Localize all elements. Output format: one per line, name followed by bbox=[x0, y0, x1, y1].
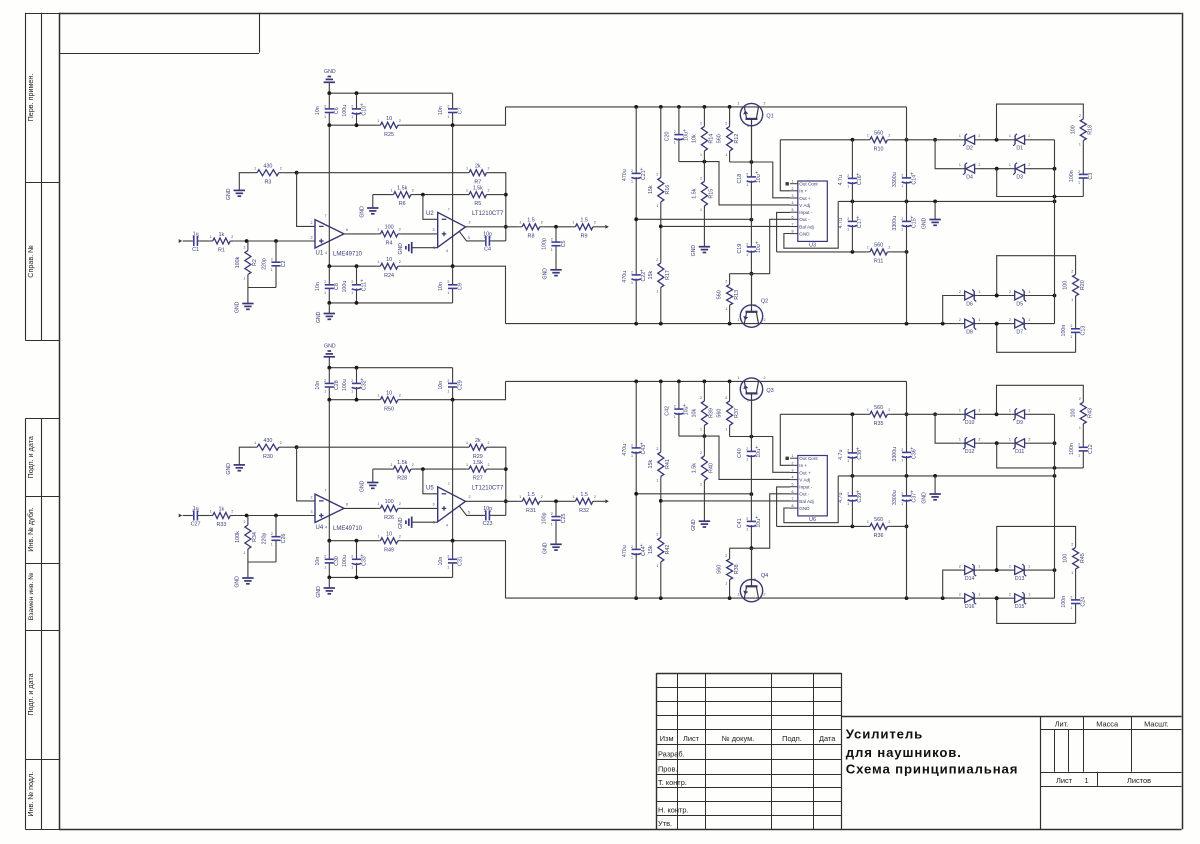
junction U2 minus node bbox=[421, 193, 425, 197]
capacitor C6 bbox=[315, 93, 340, 125]
diode D1 bbox=[1009, 134, 1031, 152]
svg-text:R4: R4 bbox=[386, 241, 393, 247]
svg-text:15k: 15k bbox=[648, 185, 654, 194]
svg-text:1: 1 bbox=[674, 141, 676, 145]
wire D7 right corner bbox=[1027, 323, 1054, 325]
svg-text:R17: R17 bbox=[665, 270, 671, 280]
svg-text:R30: R30 bbox=[263, 454, 273, 460]
wire D1 right corner bbox=[1027, 413, 1054, 415]
svg-text:220p: 220p bbox=[262, 533, 268, 545]
svg-text:Подп. и дата: Подп. и дата bbox=[26, 673, 35, 715]
junction R5 fb bbox=[504, 467, 508, 471]
svg-text:2: 2 bbox=[244, 246, 246, 250]
resistor R43 bbox=[1070, 397, 1093, 430]
svg-text:Q1: Q1 bbox=[766, 114, 773, 120]
wire Out- pin bbox=[751, 219, 790, 273]
resistor R42 bbox=[648, 501, 671, 598]
svg-text:1: 1 bbox=[466, 441, 468, 445]
wire GND pin loop bbox=[784, 201, 838, 248]
svg-text:R8: R8 bbox=[528, 233, 535, 239]
svg-text:2: 2 bbox=[764, 593, 766, 597]
wire +reg vertical bbox=[906, 107, 908, 140]
junction -rail taps bbox=[634, 596, 638, 600]
svg-text:2: 2 bbox=[1078, 443, 1080, 447]
svg-text:1: 1 bbox=[738, 101, 740, 105]
wire lower-cell bottom edge bbox=[997, 598, 1076, 623]
junction -V line bbox=[327, 264, 331, 268]
svg-text:3: 3 bbox=[754, 578, 756, 582]
svg-text:1: 1 bbox=[792, 180, 794, 184]
svg-text:4: 4 bbox=[446, 249, 448, 253]
junction C5 node bbox=[554, 499, 558, 503]
svg-text:10: 10 bbox=[386, 391, 392, 397]
svg-text:GND: GND bbox=[235, 301, 241, 313]
wire D3 right bbox=[1027, 168, 1054, 170]
svg-text:R34: R34 bbox=[252, 532, 258, 542]
svg-text:2: 2 bbox=[399, 394, 401, 398]
svg-text:1: 1 bbox=[210, 509, 212, 513]
wire D3 right bbox=[1027, 442, 1054, 444]
svg-text:2: 2 bbox=[1028, 409, 1030, 413]
resistor R16 bbox=[648, 107, 671, 226]
svg-text:Лист: Лист bbox=[1056, 776, 1073, 785]
svg-text:1: 1 bbox=[725, 427, 727, 431]
svg-text:2: 2 bbox=[888, 134, 890, 138]
ground GND C25 bbox=[543, 523, 562, 554]
svg-text:1: 1 bbox=[1009, 409, 1011, 413]
junction R11 line bbox=[851, 525, 855, 529]
svg-text:GND: GND bbox=[324, 69, 336, 75]
svg-text:6: 6 bbox=[792, 490, 794, 494]
svg-text:C8: C8 bbox=[334, 283, 340, 290]
wire U1 out bbox=[344, 233, 377, 235]
capacitor C12 bbox=[1069, 427, 1094, 468]
svg-text:1: 1 bbox=[746, 253, 748, 257]
svg-text:Out +: Out + bbox=[799, 470, 811, 475]
svg-text:V Adj: V Adj bbox=[799, 203, 810, 208]
svg-text:2: 2 bbox=[725, 396, 727, 400]
wire U2 pin5 bbox=[460, 232, 484, 241]
svg-text:470u: 470u bbox=[622, 444, 628, 456]
diode D5 bbox=[1009, 290, 1031, 308]
svg-text:1.5k: 1.5k bbox=[691, 188, 697, 198]
svg-text:C36: C36 bbox=[911, 449, 917, 459]
svg-text:3300u: 3300u bbox=[892, 172, 898, 187]
junction -V line bbox=[327, 539, 331, 543]
svg-text:U3: U3 bbox=[809, 243, 816, 249]
svg-text:470u: 470u bbox=[622, 271, 628, 283]
svg-text:C13: C13 bbox=[1080, 326, 1086, 336]
svg-text:D9: D9 bbox=[1016, 420, 1023, 426]
svg-text:1: 1 bbox=[1028, 593, 1030, 597]
svg-text:Взамен инв. №: Взамен инв. № bbox=[28, 572, 35, 620]
svg-text:3300u: 3300u bbox=[892, 216, 898, 231]
svg-text:U4: U4 bbox=[316, 525, 324, 531]
junction gnd bus bbox=[851, 474, 855, 478]
wire R7 to fb vertical bbox=[490, 447, 506, 515]
svg-text:C31: C31 bbox=[457, 556, 463, 566]
capacitor C4 bbox=[483, 231, 492, 252]
svg-text:2: 2 bbox=[656, 447, 658, 451]
svg-text:R12: R12 bbox=[734, 134, 740, 144]
svg-text:1: 1 bbox=[901, 502, 903, 506]
svg-text:4: 4 bbox=[325, 526, 327, 530]
capacitor C7 bbox=[438, 93, 463, 125]
resistor R6 bbox=[390, 185, 414, 207]
svg-text:2: 2 bbox=[1028, 134, 1030, 138]
wire R11 right bbox=[891, 251, 907, 253]
svg-text:2: 2 bbox=[978, 163, 980, 167]
svg-text:C42: C42 bbox=[665, 406, 671, 416]
svg-text:560: 560 bbox=[717, 565, 723, 574]
wire R11 line bbox=[777, 525, 867, 527]
wire R6-R5 node bbox=[414, 468, 465, 470]
svg-text:2: 2 bbox=[541, 221, 543, 225]
svg-text:2: 2 bbox=[656, 532, 658, 536]
svg-text:1: 1 bbox=[466, 463, 468, 467]
wire D4-D3 bbox=[977, 442, 1012, 444]
svg-text:1: 1 bbox=[377, 394, 379, 398]
svg-text:2: 2 bbox=[631, 443, 633, 447]
diode D15 bbox=[1009, 592, 1031, 610]
svg-text:1: 1 bbox=[631, 555, 633, 559]
capacitor C19 bbox=[737, 220, 762, 274]
svg-text:C18: C18 bbox=[737, 174, 743, 184]
svg-text:R15: R15 bbox=[709, 189, 715, 199]
svg-text:2: 2 bbox=[1028, 163, 1030, 167]
svg-text:1: 1 bbox=[197, 509, 199, 513]
svg-text:2: 2 bbox=[959, 290, 961, 294]
svg-text:220p: 220p bbox=[262, 258, 268, 270]
svg-text:1: 1 bbox=[867, 408, 869, 412]
svg-text:15k: 15k bbox=[648, 459, 654, 468]
svg-text:2: 2 bbox=[978, 134, 980, 138]
junction gnd bus bbox=[327, 366, 331, 370]
title block rows left bbox=[656, 687, 841, 689]
svg-text:1: 1 bbox=[674, 415, 676, 419]
svg-text:R16: R16 bbox=[665, 185, 671, 195]
wire lower-cell left link bbox=[943, 570, 962, 598]
svg-text:100n: 100n bbox=[1061, 325, 1067, 337]
resistor R12 bbox=[717, 107, 740, 162]
svg-text:10: 10 bbox=[386, 116, 392, 122]
ground GND R3 bbox=[226, 188, 245, 200]
resistor R26 bbox=[377, 499, 402, 521]
diode D12 bbox=[959, 437, 981, 455]
svg-text:1: 1 bbox=[324, 115, 326, 119]
svg-text:8: 8 bbox=[792, 230, 794, 234]
ground GND R6 bbox=[359, 195, 378, 218]
svg-text:2: 2 bbox=[1071, 543, 1073, 547]
svg-text:1k: 1k bbox=[219, 232, 225, 238]
resistor R14 bbox=[691, 107, 714, 162]
svg-text:100: 100 bbox=[385, 225, 394, 231]
junction -V gnd bus bbox=[327, 576, 331, 580]
resistor R30 bbox=[254, 438, 283, 460]
resistor R2 bbox=[235, 241, 258, 288]
wire R11 line bbox=[777, 251, 867, 253]
junction -rail taps bbox=[634, 322, 638, 326]
svg-text:1: 1 bbox=[901, 458, 903, 462]
svg-text:R39: R39 bbox=[709, 408, 715, 418]
svg-text:GND: GND bbox=[359, 480, 365, 492]
svg-text:2: 2 bbox=[351, 555, 353, 559]
svg-text:1: 1 bbox=[746, 183, 748, 187]
svg-text:для наушников.: для наушников. bbox=[846, 745, 962, 760]
wire upper-cell top edge bbox=[997, 385, 1084, 414]
svg-text:Н. контр.: Н. контр. bbox=[658, 805, 689, 814]
svg-text:1: 1 bbox=[978, 318, 980, 322]
diode D11 bbox=[1009, 437, 1031, 455]
svg-text:2: 2 bbox=[351, 280, 353, 284]
svg-text:GND: GND bbox=[226, 463, 232, 475]
svg-text:2: 2 bbox=[1009, 593, 1011, 597]
svg-text:1: 1 bbox=[1078, 453, 1080, 457]
wire -V line bbox=[329, 265, 377, 267]
junction rail taps bbox=[634, 380, 638, 384]
svg-text:1: 1 bbox=[700, 153, 702, 157]
svg-text:R43: R43 bbox=[1088, 408, 1094, 418]
wire upper-cell top edge bbox=[997, 104, 1084, 140]
svg-text:GND: GND bbox=[543, 542, 549, 554]
wire +V bus bbox=[329, 399, 377, 401]
svg-text:Input -: Input - bbox=[799, 210, 812, 215]
resistor R40 bbox=[691, 436, 714, 521]
svg-text:2: 2 bbox=[631, 169, 633, 173]
svg-text:100n: 100n bbox=[1069, 443, 1075, 455]
svg-text:GND: GND bbox=[359, 206, 365, 218]
svg-text:R29: R29 bbox=[473, 454, 483, 460]
junction VAdj bbox=[703, 160, 707, 164]
svg-text:2: 2 bbox=[447, 555, 449, 559]
wire D8-D7 bbox=[977, 323, 1012, 325]
svg-text:2: 2 bbox=[280, 167, 282, 171]
svg-text:1: 1 bbox=[725, 582, 727, 586]
svg-text:2: 2 bbox=[631, 270, 633, 274]
svg-text:R20: R20 bbox=[1080, 280, 1086, 290]
svg-text:560: 560 bbox=[717, 290, 723, 299]
svg-text:10n: 10n bbox=[438, 557, 444, 566]
svg-text:100: 100 bbox=[1070, 409, 1076, 418]
svg-text:10n: 10n bbox=[315, 557, 321, 566]
svg-text:C32: C32 bbox=[361, 380, 367, 390]
svg-text:R10: R10 bbox=[874, 146, 884, 152]
resistor R49 bbox=[377, 532, 402, 554]
svg-text:R7: R7 bbox=[474, 179, 481, 185]
svg-text:2: 2 bbox=[484, 235, 486, 239]
capacitor C31 bbox=[438, 541, 463, 578]
svg-text:1.5k: 1.5k bbox=[473, 460, 483, 466]
ground GND R30 bbox=[226, 463, 245, 475]
resistor R1 bbox=[209, 232, 234, 254]
wire R4 to U2 plus bbox=[401, 233, 437, 235]
svg-text:GND: GND bbox=[316, 311, 322, 323]
resistor R20 bbox=[1063, 270, 1086, 303]
svg-text:2: 2 bbox=[1009, 318, 1011, 322]
svg-text:100u: 100u bbox=[342, 281, 348, 293]
svg-text:1: 1 bbox=[746, 527, 748, 531]
capacitor C22 bbox=[622, 219, 647, 323]
wire R10 right bbox=[891, 413, 962, 415]
svg-text:100u: 100u bbox=[342, 555, 348, 567]
svg-text:1: 1 bbox=[377, 535, 379, 539]
wire R3 left corner bbox=[239, 173, 253, 191]
svg-text:1: 1 bbox=[1084, 776, 1088, 785]
svg-text:560: 560 bbox=[874, 131, 883, 137]
diode D16 bbox=[959, 592, 981, 610]
svg-text:1.5: 1.5 bbox=[527, 218, 535, 224]
junction lower-cell bbox=[995, 568, 999, 572]
svg-text:1: 1 bbox=[519, 221, 521, 225]
svg-text:1: 1 bbox=[244, 277, 246, 281]
svg-text:3: 3 bbox=[433, 228, 435, 232]
svg-text:Т. контр.: Т. контр. bbox=[658, 778, 687, 787]
wire Out+ line bbox=[730, 162, 790, 198]
op-amp U1 bbox=[315, 220, 344, 248]
wire node to U1 minus bbox=[297, 447, 315, 501]
wire -V line right bbox=[401, 541, 505, 598]
wire C4 to fb bbox=[491, 240, 505, 242]
diode D2 bbox=[959, 134, 981, 152]
svg-text:100u: 100u bbox=[342, 379, 348, 391]
svg-text:2: 2 bbox=[746, 517, 748, 521]
svg-text:C43: C43 bbox=[641, 445, 647, 455]
wire upper-cell bottom edge bbox=[997, 443, 1084, 468]
capacitor C13 bbox=[1061, 299, 1086, 352]
svg-text:1: 1 bbox=[377, 260, 379, 264]
wire R3 to node bbox=[282, 172, 296, 174]
svg-text:15k: 15k bbox=[648, 545, 654, 554]
svg-text:2: 2 bbox=[551, 512, 553, 516]
svg-text:1: 1 bbox=[867, 520, 869, 524]
svg-text:1: 1 bbox=[656, 478, 658, 482]
svg-text:D16: D16 bbox=[965, 604, 975, 610]
svg-text:LT1210CT7: LT1210CT7 bbox=[472, 211, 504, 217]
svg-text:2k: 2k bbox=[475, 438, 481, 444]
wire In+ pin bbox=[780, 140, 790, 191]
wire U2 supply rail bbox=[452, 400, 454, 541]
junction gnd bus bbox=[327, 91, 331, 95]
wire GND pin loop bbox=[784, 476, 838, 523]
svg-text:1: 1 bbox=[978, 593, 980, 597]
svg-text:D11: D11 bbox=[1015, 449, 1024, 455]
resistor R7 bbox=[466, 164, 491, 186]
wire upper-cell bottom edge bbox=[997, 169, 1084, 197]
wire mid line bbox=[636, 218, 751, 220]
junction D8-D7 bbox=[995, 596, 999, 600]
resistor R37 bbox=[717, 381, 740, 436]
resistor R32 bbox=[572, 492, 597, 514]
wire lower-cell top edge bbox=[997, 526, 1076, 570]
svg-text:R24: R24 bbox=[384, 273, 394, 279]
svg-text:C3: C3 bbox=[1088, 173, 1094, 180]
title block right section bbox=[1040, 716, 1042, 829]
wire U2 output bbox=[466, 226, 519, 228]
svg-text:10u: 10u bbox=[684, 132, 690, 141]
svg-text:2: 2 bbox=[901, 173, 903, 177]
svg-text:2: 2 bbox=[412, 188, 414, 192]
svg-text:Подп. и дата: Подп. и дата bbox=[26, 436, 35, 478]
svg-text:Утв.: Утв. bbox=[658, 819, 672, 828]
junction output fb bbox=[504, 499, 508, 503]
svg-text:2: 2 bbox=[901, 217, 903, 221]
capacitor C17 bbox=[838, 201, 863, 252]
svg-text:C12: C12 bbox=[1088, 444, 1094, 454]
junction D4-D3 bbox=[995, 441, 999, 445]
svg-text:U2: U2 bbox=[426, 211, 434, 217]
svg-text:C41: C41 bbox=[737, 518, 743, 528]
wire Out- pin bbox=[751, 494, 790, 548]
svg-text:2: 2 bbox=[399, 228, 401, 232]
svg-text:1: 1 bbox=[244, 551, 246, 555]
svg-text:2: 2 bbox=[656, 172, 658, 176]
svg-text:2: 2 bbox=[324, 280, 326, 284]
svg-text:2: 2 bbox=[192, 235, 194, 239]
svg-text:Out -: Out - bbox=[799, 217, 810, 222]
svg-text:C30: C30 bbox=[334, 556, 340, 566]
svg-text:5: 5 bbox=[792, 483, 794, 487]
svg-text:1: 1 bbox=[391, 188, 393, 192]
wire R13 corner bbox=[730, 547, 752, 549]
svg-text:10n: 10n bbox=[438, 106, 444, 115]
svg-text:R6: R6 bbox=[399, 201, 406, 207]
svg-text:GND: GND bbox=[922, 217, 928, 229]
junction C5 node bbox=[554, 225, 558, 229]
svg-text:1: 1 bbox=[725, 307, 727, 311]
svg-text:10u: 10u bbox=[756, 449, 762, 458]
svg-text:1: 1 bbox=[324, 291, 326, 295]
diode D14 bbox=[959, 564, 981, 582]
svg-text:2: 2 bbox=[271, 532, 273, 536]
svg-text:10k: 10k bbox=[691, 408, 697, 417]
svg-text:2: 2 bbox=[764, 376, 766, 380]
resistor R35 bbox=[866, 405, 891, 427]
svg-text:2: 2 bbox=[888, 408, 890, 412]
svg-text:2: 2 bbox=[674, 405, 676, 409]
capacitor C44 bbox=[622, 494, 647, 598]
transistor Q2 bbox=[738, 274, 769, 328]
svg-text:1: 1 bbox=[700, 427, 702, 431]
svg-text:D1: D1 bbox=[1016, 146, 1023, 152]
svg-text:R31: R31 bbox=[526, 508, 536, 514]
svg-text:1: 1 bbox=[746, 457, 748, 461]
svg-text:2: 2 bbox=[594, 221, 596, 225]
junction D8-D7 bbox=[995, 322, 999, 326]
junction R10 line bbox=[851, 138, 855, 142]
wire R2/C2 bottom bbox=[248, 561, 276, 563]
wire -V gnd bus bbox=[329, 576, 452, 578]
wire R8-R9 bbox=[543, 500, 572, 502]
junction D6-D5 bbox=[995, 568, 999, 572]
svg-text:1.5k: 1.5k bbox=[397, 185, 407, 191]
svg-text:2: 2 bbox=[746, 172, 748, 176]
resistor R8 bbox=[519, 218, 544, 240]
diode D7 bbox=[1009, 318, 1031, 336]
svg-text:Листов: Листов bbox=[1127, 776, 1151, 785]
svg-text:C6: C6 bbox=[334, 107, 340, 114]
svg-text:2: 2 bbox=[959, 593, 961, 597]
junction cell vertical bbox=[1053, 167, 1057, 171]
svg-text:2: 2 bbox=[192, 509, 194, 513]
svg-text:2: 2 bbox=[746, 242, 748, 246]
diode D10 bbox=[959, 408, 981, 426]
wire R3 to node bbox=[282, 446, 296, 448]
svg-text:1: 1 bbox=[656, 289, 658, 293]
resistor R50 bbox=[377, 391, 402, 413]
svg-text:2: 2 bbox=[725, 554, 727, 558]
svg-text:2: 2 bbox=[725, 121, 727, 125]
transistor Q3 bbox=[738, 376, 774, 437]
